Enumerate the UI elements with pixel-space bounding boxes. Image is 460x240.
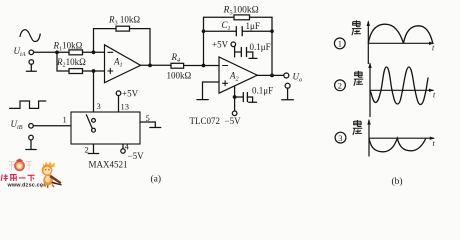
circled number 3 (335, 132, 346, 143)
svg-text:3: 3 (338, 133, 342, 143)
circled number 2 (335, 80, 346, 91)
wire branch to R2 (57, 70, 69, 72)
wire branch down to R2 (56, 52, 58, 71)
svg-text:0.1μF: 0.1μF (250, 42, 271, 52)
node bottom supply junction (233, 95, 237, 99)
svg-text:1μF: 1μF (246, 21, 260, 31)
terminal UiA (29, 50, 34, 55)
waveform curve: rectified sine up (368, 24, 433, 43)
label (b) (392, 176, 403, 187)
ground at A2 + input (197, 99, 208, 101)
wire feedback right vertical (271, 17, 273, 75)
wire pin 13 (118, 96, 120, 113)
wire C1 row (204, 30, 273, 32)
svg-text:R5100kΩ: R5100kΩ (223, 6, 259, 17)
svg-text:1: 1 (338, 39, 342, 49)
svg-text:3: 3 (97, 101, 101, 111)
svg-text:+5V: +5V (122, 89, 139, 99)
capacitor 0.1uF top (241, 48, 246, 57)
svg-text:−5V: −5V (225, 116, 242, 126)
node A2 output junction (270, 74, 274, 78)
svg-text:MAX4521: MAX4521 (89, 160, 128, 170)
sine source symbol for UiA (20, 30, 40, 42)
wire pin 3 down to MAX4521 (93, 71, 95, 112)
axes (369, 63, 371, 117)
node R2 / pin3 junction (92, 69, 96, 73)
+5V supply pin 13 (116, 91, 121, 96)
wire R4 to A2 inverting input (184, 65, 219, 67)
wire A2 bottom supply (234, 86, 236, 111)
node A1 output junction (148, 64, 152, 68)
wire R2 to A1 noninverting input (83, 70, 105, 72)
wire UiB to pin 1 (33, 125, 71, 127)
square wave source symbol for UiB (10, 101, 46, 108)
analog switch MAX4521 box U1 (71, 112, 140, 144)
label (a) (151, 174, 162, 185)
waveform panel 3 (335, 119, 435, 157)
svg-text:1: 1 (63, 115, 67, 125)
resistor R1 (69, 50, 83, 55)
wire R3 down to A1 output (149, 29, 151, 66)
pin 13 label (121, 102, 130, 112)
svg-text:(a): (a) (151, 174, 162, 185)
capacitor 0.1uF bottom (243, 93, 247, 102)
svg-text:100kΩ: 100kΩ (167, 71, 192, 81)
terminal UiB return (29, 135, 34, 140)
wire A1 output to R4 (141, 64, 171, 66)
switch contacts inside MAX4521 (92, 119, 96, 123)
pin 1 label (63, 115, 67, 125)
label MAX4521 (89, 160, 128, 170)
wire +5V to A2 top (234, 47, 236, 58)
waveform panel 1 (334, 20, 435, 64)
svg-text:5: 5 (146, 113, 150, 123)
svg-text:TLC072: TLC072 (190, 116, 221, 126)
svg-text:2: 2 (338, 81, 342, 91)
resistor R2 (69, 69, 83, 74)
node R1 / R3 junction (92, 50, 96, 54)
-5V supply A2 (232, 111, 237, 116)
label TLC072 (190, 116, 221, 126)
capacitor C1 (236, 27, 242, 36)
wire to bottom cap (235, 96, 244, 98)
resistor R3 (116, 26, 130, 31)
ground for top cap (247, 52, 258, 58)
terminal Uo (284, 73, 289, 78)
node C1 left (202, 29, 206, 33)
pin 5 wire and ground (140, 122, 161, 128)
label UiB (11, 119, 23, 131)
voltage label glyphs (354, 71, 363, 86)
wire feedback up from R1 node (94, 29, 151, 53)
waveform curve: chopped sine (370, 67, 428, 105)
watermark logo (1, 159, 62, 189)
svg-text:−5V: −5V (128, 151, 145, 161)
+5V supply A2 (231, 42, 236, 47)
terminal UiB (29, 124, 34, 129)
terminal UiA return (29, 60, 34, 65)
pin 4 wire and -5V supply (122, 144, 124, 149)
op-amp A1 (105, 45, 141, 83)
svg-text:(b): (b) (392, 176, 403, 187)
ground under Uo (282, 88, 294, 100)
voltage label glyphs (352, 20, 361, 35)
svg-text:0.1μF: 0.1μF (252, 85, 273, 95)
pin 3 label (97, 101, 101, 111)
wire feedback left vertical (203, 17, 205, 65)
axes (368, 120, 370, 157)
wire A2 output (257, 74, 284, 76)
node A2 input junction (202, 64, 206, 68)
wire R1 to A1 inverting input (83, 51, 105, 53)
wire A2 noninverting input to ground (203, 82, 220, 99)
svg-text:2: 2 (85, 145, 89, 155)
ground under UiB (26, 140, 36, 150)
ground under UiA (26, 64, 36, 71)
axes (367, 22, 369, 65)
wire to decoupling cap top (235, 51, 242, 53)
label UiA (14, 46, 26, 58)
node input branch (55, 50, 59, 54)
svg-text:+5V: +5V (212, 40, 229, 50)
wire UiA to R1 (34, 51, 69, 53)
svg-text:13: 13 (121, 102, 130, 112)
ground for bottom cap (247, 97, 256, 102)
node C1 right (270, 29, 274, 33)
op-amp A2 (219, 57, 257, 93)
wire R5 top row (204, 16, 273, 18)
circled number 1 (334, 38, 345, 49)
waveform curve: rectified sine down (369, 138, 426, 152)
terminal Uo return (285, 83, 290, 88)
resistor R5 (234, 15, 250, 20)
voltage label glyphs (353, 120, 362, 135)
waveform panel 2 (335, 62, 436, 117)
resistor R4 (171, 63, 184, 68)
pin 2 wire and ground (88, 144, 98, 154)
